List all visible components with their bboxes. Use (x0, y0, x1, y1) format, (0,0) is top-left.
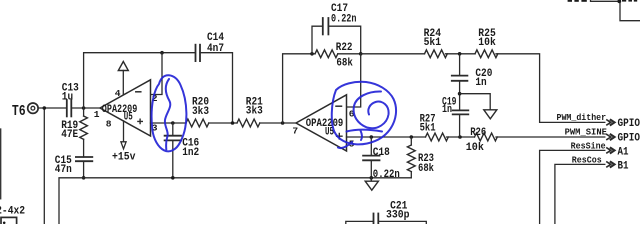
wire R23 leads (410, 137, 412, 178)
svg-text:4: 4 (115, 88, 121, 99)
node C18 tap (370, 135, 374, 139)
wire R21 to op-amp pin 7 (260, 122, 296, 124)
connector chevron ResSine (607, 148, 615, 153)
wire left-edge stub (0, 129, 2, 199)
svg-text:U5: U5 (124, 111, 133, 123)
capacitor C18 (363, 156, 379, 161)
connector chevron PWM_dither (607, 120, 615, 125)
power arrow down +15v (pin 8) (121, 142, 126, 149)
svg-text:68k: 68k (336, 58, 353, 70)
capacitor C13 (67, 100, 72, 116)
wire C19 bottom lead (459, 114, 461, 137)
wire C18 leads (370, 137, 372, 178)
annotation blue loop over U5B (332, 82, 396, 148)
connector T6 (28, 103, 38, 113)
svg-text:10k: 10k (466, 142, 485, 154)
node pin3/C16 (171, 121, 175, 125)
svg-text:0.22n: 0.22n (373, 169, 400, 181)
svg-text:0.22n: 0.22n (331, 14, 357, 26)
svg-text:1n2: 1n2 (182, 147, 199, 159)
wire output rail R22 node to R24 (361, 54, 605, 123)
svg-text:4n7: 4n7 (207, 43, 224, 55)
node C16 rail junction (171, 176, 175, 180)
capacitor C20 (452, 76, 468, 81)
svg-text:1n: 1n (475, 77, 486, 89)
bottom rail wire (59, 178, 411, 224)
svg-text:10k: 10k (478, 37, 496, 49)
wire R22 to right node (338, 53, 361, 55)
ground symbol below rail (365, 178, 378, 190)
svg-text:3k3: 3k3 (246, 106, 263, 118)
pad mark inside box (3, 222, 6, 225)
net wire ResCos (555, 164, 605, 224)
svg-text:330p: 330p (386, 210, 410, 222)
annotation blue loop over U5A (152, 75, 187, 151)
wire C21 right (378, 221, 426, 224)
svg-text:R26: R26 (470, 127, 486, 139)
node T6 junction (43, 106, 47, 110)
op-amp U5B (296, 95, 347, 151)
svg-text:ResCos: ResCos (572, 155, 602, 166)
wire pin4 stem (122, 71, 124, 95)
node R22/C17 right, op-amp pin6 tap (359, 52, 363, 56)
svg-text:3k3: 3k3 (192, 106, 209, 118)
svg-text:A1: A1 (618, 147, 629, 159)
svg-text:B1: B1 (618, 161, 629, 173)
wire C14 right to R20/R21 node (200, 53, 233, 123)
wire pin8 stem (123, 121, 125, 142)
node C18 rail junction (370, 176, 374, 180)
resistor R21 (237, 119, 260, 127)
resistor R19 (80, 116, 88, 139)
node C19 bottom junction (458, 135, 462, 139)
resistor R24 (425, 50, 448, 58)
svg-text:GPIO: GPIO (618, 133, 640, 145)
top-right wire fragment (591, 0, 640, 21)
svg-text:PWM_SINE: PWM_SINE (565, 127, 608, 138)
svg-text:68k: 68k (418, 163, 434, 175)
resistor R23 (407, 145, 415, 172)
wire R20 to R21 (209, 122, 237, 124)
svg-text:1n: 1n (442, 104, 452, 116)
wire pin 3 to R20 (151, 122, 187, 124)
power arrow up (pin 4) (118, 62, 128, 71)
wire vertical from T6 node down off-page (43, 108, 45, 224)
node R23 tap (410, 135, 414, 139)
wire pin 6 (347, 54, 361, 107)
svg-text:2-4x2: 2-4x2 (0, 206, 25, 218)
wire C20 leads (459, 54, 461, 111)
node R20/R21/C14 (231, 121, 235, 125)
svg-text:GPIO: GPIO (618, 118, 640, 130)
node C15 rail junction (82, 176, 86, 180)
svg-text:T6: T6 (12, 103, 26, 120)
svg-text:8: 8 (106, 119, 112, 130)
capacitor C17 (323, 18, 329, 34)
wire C13 to op-amp pin 1 (71, 107, 100, 109)
capacitor C16 (165, 136, 181, 141)
resistor R25 (475, 50, 498, 58)
wire jog to ground (460, 94, 491, 110)
node ground jog (458, 92, 462, 96)
svg-text:5k1: 5k1 (424, 37, 442, 49)
node pin2 feedback tap (160, 51, 164, 55)
svg-text:7: 7 (292, 126, 298, 137)
wire pin 2 (151, 53, 163, 95)
connector chevron PWM_SINE (607, 135, 615, 140)
op-amp U5A (100, 80, 151, 136)
connector chevron ResCos (607, 162, 615, 167)
node R24/R25/C20 (458, 52, 462, 56)
ground symbol right (484, 110, 497, 119)
wire C21 left (346, 221, 374, 224)
capacitor C19 (453, 110, 469, 114)
node A (C13/R19/feedback/pin1) (82, 106, 86, 110)
wire C17 branch (312, 26, 361, 54)
wire feedback vertical up to R22 rail (283, 54, 315, 123)
resistor R26 (475, 133, 498, 141)
svg-text:47E: 47E (61, 129, 78, 141)
resistor R27 (426, 133, 449, 141)
svg-text:R22: R22 (336, 42, 353, 54)
wire T6 to C13 (38, 107, 66, 109)
wire pin 5 analog rail to PWM_SINE (347, 136, 605, 138)
svg-text:5k1: 5k1 (420, 122, 436, 134)
capacitor C21 (374, 214, 379, 227)
wire node A up and top feedback rail to C14 (84, 53, 196, 108)
node top-right junction (617, 0, 621, 3)
connector box bottom-left (1, 217, 17, 227)
node pin7 feedback tap (281, 121, 285, 125)
svg-text:47n: 47n (55, 164, 72, 176)
capacitor C15 (76, 157, 92, 161)
node R22 left / C17 left (310, 52, 314, 56)
capacitor C14 (196, 45, 201, 61)
resistor R20 (186, 119, 209, 127)
wire R19 leads (83, 108, 85, 157)
svg-text:1u: 1u (62, 92, 73, 104)
net wire ResSine (540, 150, 605, 224)
svg-text:+15v: +15v (112, 151, 136, 163)
svg-text:PWM_dither: PWM_dither (557, 112, 607, 123)
wire C16 leads (172, 123, 174, 178)
svg-text:1: 1 (94, 109, 100, 120)
resistor R22 (315, 50, 338, 58)
svg-text:ResSine: ResSine (571, 141, 606, 152)
cut-off text marks top edge (568, 0, 638, 2)
wire C15 to ground rail (83, 161, 85, 178)
svg-text:C18: C18 (373, 147, 390, 159)
